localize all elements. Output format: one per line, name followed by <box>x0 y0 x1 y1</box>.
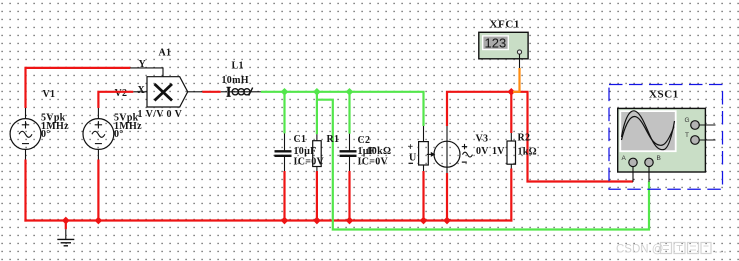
value label R2: 1kOhm <box>518 147 537 158</box>
wire: drop to R2 (red) <box>510 92 512 133</box>
pin label X <box>138 85 146 96</box>
wire: V2 minus to ground rail (red) <box>97 160 99 221</box>
wire: scope B terminal stub (black) <box>648 167 650 182</box>
value label R1: 10kOhm <box>367 146 392 157</box>
value label A1: 1 V/V 0 V <box>138 109 183 120</box>
wire: V3 to ground rail (red) <box>446 173 448 221</box>
junction: node at C1 top <box>281 88 289 96</box>
svg-text:XSC1: XSC1 <box>649 89 679 101</box>
initial condition label C2: IC=0V <box>358 157 389 168</box>
wire: drop to C2 (green) <box>348 92 350 134</box>
value label V2: 5Vpk 1MHz 0deg <box>114 113 142 140</box>
value label V1: 5Vpk 1MHz 0deg <box>41 113 69 140</box>
wire: R1 to ground rail (red) <box>316 171 318 221</box>
value label L1: 10mH <box>222 75 249 86</box>
junction: R1 ground node <box>313 217 321 225</box>
wire: XFC1 to R2 node (orange) <box>513 68 520 92</box>
svg-text:B: B <box>657 155 661 162</box>
selection box around XSC1 (blue dashed) <box>609 85 723 190</box>
inductor L1 <box>221 87 261 96</box>
svg-text:C1: C1 <box>294 134 307 145</box>
svg-text:XFC1: XFC1 <box>490 18 521 30</box>
svg-text:R2: R2 <box>518 133 531 144</box>
frequency counter XFC1 <box>479 32 528 59</box>
svg-text:G: G <box>685 117 690 124</box>
label A1 <box>159 48 172 59</box>
svg-text:IC=0V: IC=0V <box>358 157 389 168</box>
wire: C1 to ground rail (red) <box>283 171 285 221</box>
svg-text:1V: 1V <box>492 146 505 157</box>
polarity label U plus <box>408 142 414 153</box>
svg-text:A: A <box>622 155 627 162</box>
junction: voltmeter ground node <box>420 217 428 225</box>
ground rail (red) <box>24 219 512 221</box>
label V2 (under wire) <box>115 88 128 99</box>
junction: C1 ground node <box>281 217 289 225</box>
svg-text:1µF: 1µF <box>358 146 376 157</box>
wire: A1 output stub (black) <box>188 91 203 93</box>
wire: A1 output to L1 (red) <box>202 91 220 93</box>
voltage source V1 <box>10 108 41 160</box>
label R2 <box>518 133 531 144</box>
controlled source V3 <box>427 126 473 173</box>
svg-text:123: 123 <box>485 35 507 50</box>
wire: drop to R1 (green) <box>316 92 318 134</box>
oscilloscope XSC1 <box>618 108 716 172</box>
wire: drop to C1 (green) <box>283 92 285 134</box>
label V1 <box>43 89 56 100</box>
svg-text:CSDN @: CSDN @ <box>616 244 663 256</box>
wire: scope channel B tap (green) <box>317 100 649 230</box>
wire: scope A terminal stub (black) <box>632 167 634 182</box>
polarity label U minus <box>409 162 414 164</box>
wire: XFC1 terminal stub (black) <box>519 54 521 68</box>
wire: voltmeter to ground rail (red) <box>422 171 424 221</box>
wire: R2 to ground rail (red) <box>510 169 512 222</box>
svg-text:0V: 0V <box>476 146 489 157</box>
wire: X pin stub (black) <box>133 91 147 93</box>
resistor R2 <box>507 133 516 169</box>
svg-text:V3: V3 <box>476 134 489 145</box>
wire: L1 to filter net / U meter (green) <box>261 92 424 126</box>
svg-text:V1: V1 <box>43 89 56 100</box>
svg-text:10mH: 10mH <box>222 75 249 86</box>
wire: V1 minus to ground rail (red) <box>24 160 26 222</box>
wire: C2 to ground rail (red) <box>348 171 350 221</box>
label L1 <box>232 60 244 71</box>
resistor R1 <box>313 134 322 171</box>
svg-text:0°: 0° <box>41 129 51 140</box>
value label V3: 0V 1V <box>476 146 505 157</box>
svg-text:+: + <box>408 142 414 153</box>
svg-text:A1: A1 <box>159 48 172 59</box>
multiplier A1 <box>147 77 188 107</box>
label V3 <box>476 134 489 145</box>
svg-text:1kΩ: 1kΩ <box>518 147 537 158</box>
wire: V2 plus to multiplier X input (red) <box>98 92 133 108</box>
svg-text:0°: 0° <box>114 129 124 140</box>
svg-text:T: T <box>685 132 689 139</box>
svg-text:L1: L1 <box>232 60 244 71</box>
junction: ground node <box>62 217 70 225</box>
ground GND <box>57 229 74 246</box>
pin label Y <box>139 59 147 70</box>
junction: V2 ground node <box>95 217 103 225</box>
wire: Y pin stub (black) <box>130 68 163 77</box>
label R1 <box>327 134 340 145</box>
value label C2: 1uF <box>358 146 376 157</box>
label C1 <box>294 134 307 145</box>
junction: node at C2 top <box>346 88 354 96</box>
wire: V3 top to R2/XFC1/scope-A node (red) <box>447 92 633 182</box>
svg-text:C2: C2 <box>358 135 371 146</box>
voltmeter U1 <box>419 126 429 171</box>
capacitor C1 <box>275 133 292 171</box>
label U <box>409 153 417 164</box>
voltage source V2 <box>83 108 114 160</box>
junction: node at R1 top <box>313 88 321 96</box>
junction: V3 ground node <box>443 217 451 225</box>
wire: V1 plus to multiplier Y input (red) <box>26 68 131 108</box>
watermark CSDN <box>616 243 726 256</box>
initial condition label C1: IC=0V <box>294 157 325 168</box>
label XFC1 <box>490 18 521 30</box>
svg-text:Y: Y <box>139 59 147 70</box>
svg-text:U: U <box>409 153 417 164</box>
label XSC1 <box>649 89 679 101</box>
value label C1: 10uF <box>294 146 317 157</box>
svg-text:V2: V2 <box>115 88 128 99</box>
junction: C2 ground node <box>346 217 354 225</box>
svg-text:R1: R1 <box>327 134 340 145</box>
capacitor C2 <box>340 134 357 171</box>
junction: R2/XFC1 node <box>507 88 515 96</box>
wire: ground stub (red) <box>65 221 67 230</box>
label C2 <box>358 135 371 146</box>
svg-text:1 V/V 0 V: 1 V/V 0 V <box>138 109 183 120</box>
svg-text:X: X <box>138 85 146 96</box>
